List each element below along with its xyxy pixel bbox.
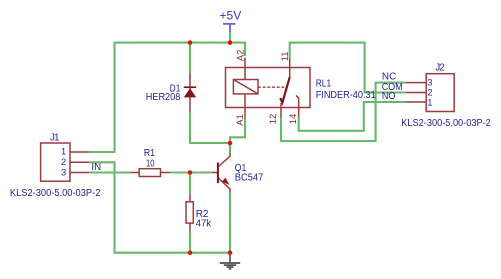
svg-text:KLS2-300-5.00-03P-2: KLS2-300-5.00-03P-2 [401,118,491,129]
svg-text:HER208: HER208 [146,92,181,103]
svg-text:47k: 47k [196,218,212,229]
svg-text:1: 1 [427,97,432,107]
svg-text:12: 12 [268,114,279,125]
svg-text:NC: NC [382,71,396,82]
svg-text:KLS2-300-5.00-03P-2: KLS2-300-5.00-03P-2 [10,188,101,199]
svg-text:IN: IN [91,162,101,173]
svg-text:J2: J2 [435,62,445,73]
svg-text:11: 11 [280,51,291,61]
svg-text:1: 1 [61,147,66,157]
svg-text:14: 14 [288,114,299,125]
svg-text:+5V: +5V [220,9,242,23]
svg-text:2: 2 [61,157,66,167]
svg-text:A2: A2 [236,50,247,62]
svg-text:3: 3 [61,167,66,177]
svg-text:RL1: RL1 [316,78,332,89]
svg-text:3: 3 [427,78,432,88]
svg-text:10: 10 [146,158,155,169]
svg-text:FINDER-40.31: FINDER-40.31 [316,90,376,101]
svg-text:BC547: BC547 [235,173,264,184]
svg-text:J1: J1 [50,132,60,143]
svg-text:A1: A1 [235,114,246,126]
svg-text:NO: NO [382,91,396,102]
svg-text:2: 2 [427,88,432,98]
